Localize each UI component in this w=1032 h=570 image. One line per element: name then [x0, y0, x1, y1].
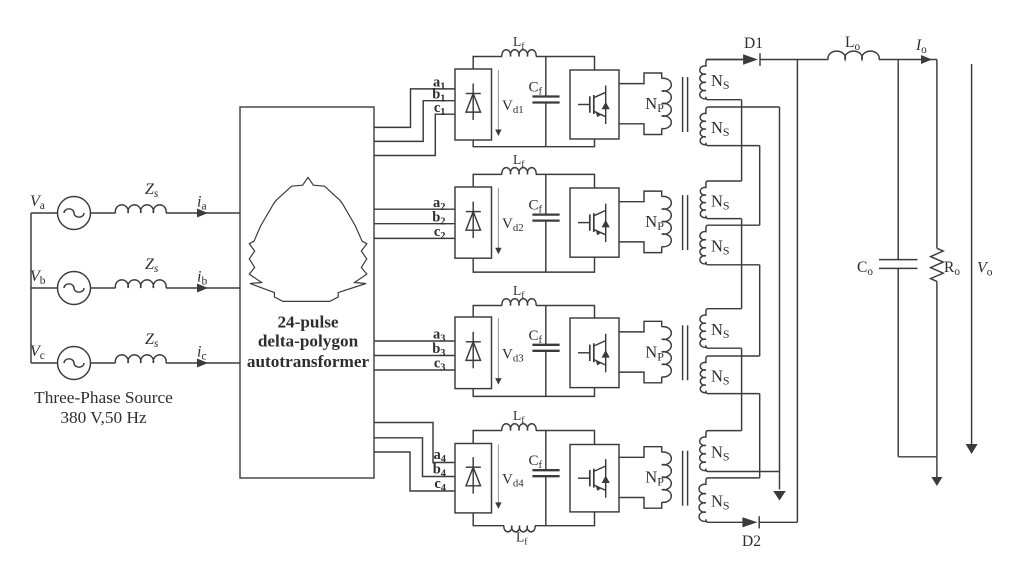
- transformer core 3: [682, 325, 684, 380]
- wire - series link Ns1 bottom to Ns3 top: [741, 100, 743, 181]
- capacitor Cf (module 3): [545, 306, 547, 345]
- arrow - output voltage Vo: [971, 64, 973, 444]
- primary winding Np1: [619, 73, 662, 84]
- wire - module 3 top rail: [473, 306, 502, 318]
- secondary winding Ns6: [700, 356, 759, 394]
- inverter box (IGBT) Q3: [570, 318, 619, 388]
- wire - phase c into autotransformer with current arrow ic: [166, 362, 240, 364]
- diode D2: [742, 517, 757, 527]
- wire - feed a4 (staircase down): [374, 423, 455, 463]
- wire - module 4 bottom rail: [473, 513, 504, 526]
- wire - module 2 bottom rail: [473, 257, 594, 272]
- inductor Lf (module 3 top): [502, 299, 536, 306]
- IGBT symbol inside inverter 4: [578, 477, 589, 479]
- primary winding Np3: [619, 321, 662, 332]
- diode rectifier box U4: [455, 444, 492, 513]
- wire - series link Ns4 bottom to Ns6 top: [759, 265, 761, 356]
- wire - phase a from source to Zs: [91, 212, 116, 214]
- primary winding Np2: [619, 191, 662, 202]
- autotransformer box (24-pulse delta-polygon autotransformer): [240, 107, 374, 478]
- capacitor Cf (module 4): [545, 431, 547, 471]
- wire - feed a3: [374, 340, 455, 342]
- wire - feed b4: [374, 438, 455, 477]
- wire - feed c2: [374, 237, 455, 239]
- IGBT symbol inside inverter 3: [578, 352, 589, 354]
- wire - phase b from source to Zs: [91, 287, 116, 289]
- svg-text:D1: D1: [744, 35, 763, 52]
- secondary winding Ns3: [700, 181, 741, 219]
- diode symbol inside rectifier 4: [472, 457, 474, 494]
- wire - phase c from source to Zs: [91, 362, 116, 364]
- inductor Lf (module 4 top): [502, 424, 536, 431]
- inductor Zs (phase b): [115, 280, 166, 288]
- diode symbol inside rectifier 3: [472, 332, 474, 369]
- diode rectifier box U3: [455, 317, 492, 389]
- diode D1: [743, 54, 758, 64]
- wire - module 4 top rail: [473, 431, 502, 444]
- wire - D2 cathode riser to positive rail: [796, 60, 798, 523]
- secondary winding Ns1: [700, 60, 743, 100]
- wire - series link Ns3 bottom to Ns5 top: [741, 219, 743, 309]
- wire - phase a into autotransformer with current arrow ia: [166, 212, 240, 214]
- svg-text:delta-polygon: delta-polygon: [258, 332, 359, 351]
- AC source Vc: [58, 347, 91, 380]
- secondary winding Ns5: [700, 309, 742, 349]
- wire - series link Ns6 bottom to Ns8 top: [759, 394, 761, 478]
- transformer core 4: [682, 451, 684, 506]
- wire - phase b source left lead: [31, 287, 58, 289]
- transformer core 2: [682, 195, 684, 250]
- wire - feed c1: [374, 114, 455, 155]
- resistor Ro: [936, 60, 938, 249]
- wire - feed b2: [374, 223, 455, 225]
- primary winding Np4: [619, 447, 662, 458]
- wire - phase b into autotransformer with current arrow ib: [166, 287, 240, 289]
- wire - feed b1: [374, 101, 455, 142]
- arrow - Vd2 voltage arrow: [497, 188, 499, 248]
- IGBT symbol inside inverter 2: [578, 222, 589, 224]
- wire - module 2 top rail: [473, 174, 502, 187]
- delta-polygon winding symbol: [249, 177, 366, 301]
- arrow - Vd4 voltage arrow: [497, 445, 499, 503]
- inverter box (IGBT) Q1: [570, 70, 619, 139]
- capacitor Cf (module 1): [545, 57, 547, 97]
- wire - module 3 bottom rail: [473, 388, 594, 397]
- inductor Lf (module 2 top): [502, 168, 536, 175]
- AC source Va: [58, 197, 91, 230]
- wire - feed b3: [374, 355, 455, 357]
- inverter box (IGBT) Q4: [570, 445, 619, 512]
- wire - phase a source left lead: [31, 212, 58, 214]
- diode symbol inside rectifier 2: [472, 202, 474, 239]
- wire - output bottom joining Co and Ro with terminal arrow: [898, 456, 937, 458]
- wire - series link Ns5 bottom to Ns7 top: [741, 348, 743, 430]
- wire - center tap: Ns2 top down to Ns7 bottom, output return arrow: [779, 107, 781, 490]
- wire - feed c4: [374, 452, 455, 491]
- capacitor Co: [897, 60, 899, 260]
- arrow - Vd1 voltage arrow: [497, 70, 499, 130]
- svg-text:D2: D2: [742, 533, 761, 550]
- inductor Lf (module 1 top): [502, 50, 536, 57]
- AC source Vb: [58, 272, 91, 305]
- svg-text:24-pulse: 24-pulse: [277, 313, 338, 332]
- wire - module 1 top rail: [473, 57, 502, 70]
- wire - series link Ns2 bottom to Ns4 top: [759, 146, 761, 226]
- wire - feed c3: [374, 369, 455, 371]
- secondary winding Ns8: [699, 478, 760, 522]
- IGBT symbol inside inverter 1: [578, 104, 589, 106]
- inductor Zs (phase c): [115, 355, 166, 363]
- diode symbol inside rectifier 1: [472, 84, 474, 121]
- inverter box (IGBT) Q2: [570, 188, 619, 257]
- wire - feed a2: [374, 208, 455, 210]
- wire - module 1 bottom rail: [473, 139, 594, 147]
- wire - rail from Lo to load with current arrow Io: [879, 59, 937, 61]
- inductor Zs (phase a): [115, 205, 166, 213]
- diode rectifier box U1: [455, 69, 492, 140]
- arrow - Vd3 voltage arrow: [497, 318, 499, 379]
- wire - positive output rail from Ns1 to Lo: [706, 59, 743, 61]
- wire - phase c source left lead: [31, 362, 58, 364]
- svg-text:Three-Phase Source: Three-Phase Source: [34, 388, 173, 407]
- svg-text:380 V,50 Hz: 380 V,50 Hz: [60, 408, 147, 427]
- secondary winding Ns7: [700, 431, 780, 472]
- inductor Lo: [828, 51, 879, 59]
- secondary winding Ns2: [700, 107, 779, 146]
- secondary winding Ns4: [700, 225, 760, 265]
- svg-text:autotransformer: autotransformer: [247, 352, 370, 371]
- capacitor Cf (module 2): [545, 174, 547, 214]
- diode rectifier box U2: [455, 187, 492, 258]
- transformer core 1: [682, 77, 684, 132]
- inductor Lf (module 4 bottom): [504, 526, 535, 532]
- wire - left vertical bus joining the three source terminals: [30, 213, 32, 363]
- wire - feed a1 (staircase up): [374, 89, 455, 128]
